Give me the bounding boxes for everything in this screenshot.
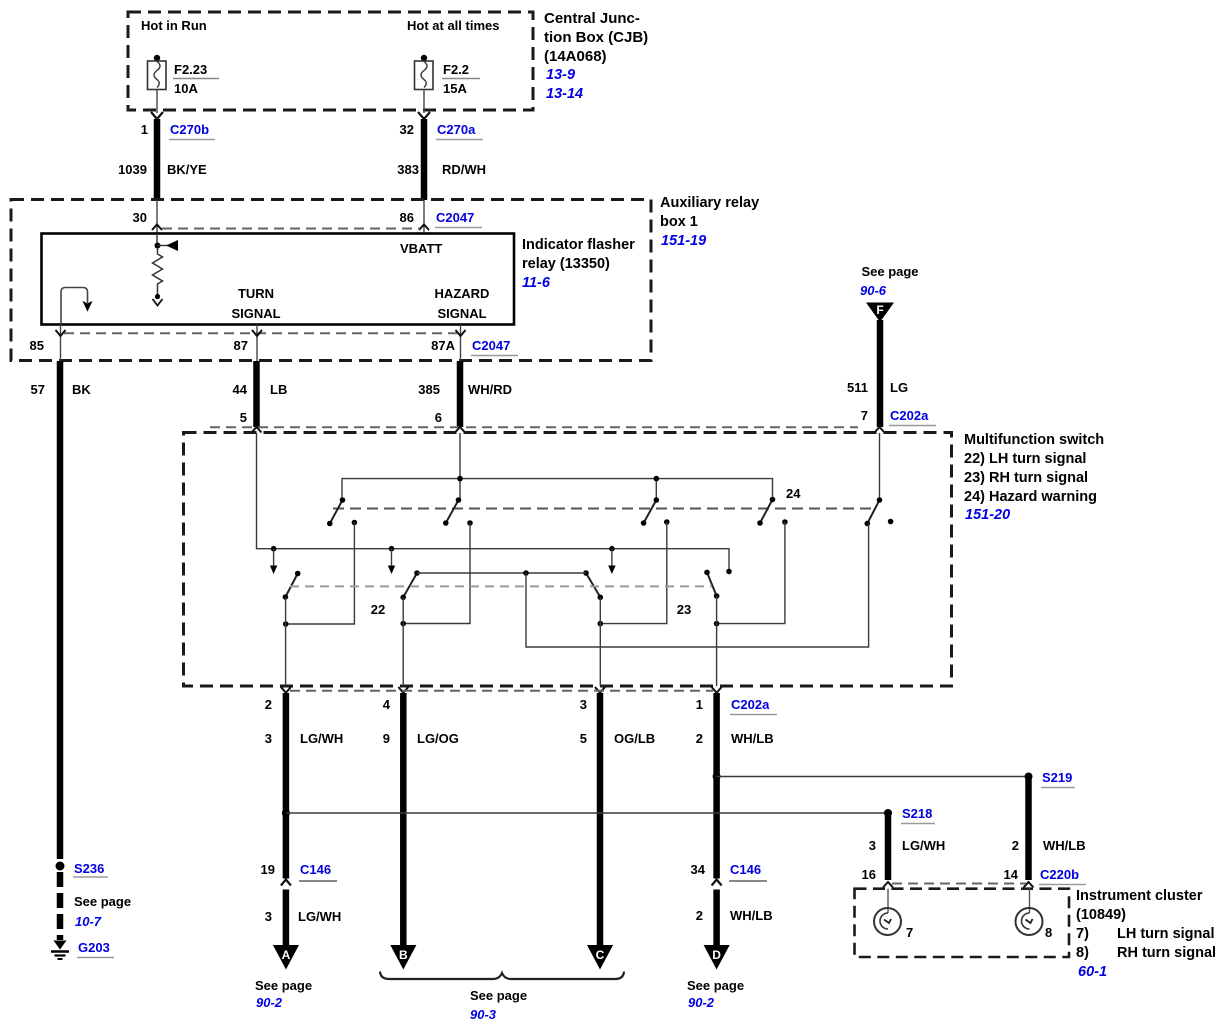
svg-text:A: A	[282, 948, 291, 962]
connector C2047 bottom bar	[64, 332, 457, 334]
connector C2047 top bar	[162, 228, 420, 230]
svg-text:OG/LB: OG/LB	[614, 731, 655, 746]
wire hazard feed line 24	[342, 479, 773, 500]
svg-text:2: 2	[265, 697, 272, 712]
wire output A thick lower	[283, 890, 290, 946]
off-page arrow B	[390, 945, 416, 970]
svg-text:(10849): (10849)	[1076, 907, 1126, 923]
svg-text:23) RH turn signal: 23) RH turn signal	[964, 470, 1088, 486]
svg-text:C146: C146	[730, 862, 761, 877]
svg-text:LG/WH: LG/WH	[902, 838, 945, 853]
svg-text:87: 87	[234, 338, 248, 353]
wire blade2 contact to output B link	[403, 523, 470, 624]
wire output A thick upper	[283, 693, 290, 879]
wire splice run D to S219	[717, 776, 1029, 778]
svg-text:90-6: 90-6	[860, 283, 887, 298]
switch 24 blade 5 open contact node	[888, 519, 894, 525]
svg-text:Indicator flasher: Indicator flasher	[522, 237, 635, 253]
lamp 7 LH turn signal indicator	[874, 889, 913, 940]
svg-text:60-1: 60-1	[1078, 964, 1107, 980]
svg-text:LG/WH: LG/WH	[300, 731, 343, 746]
connector C270b	[169, 122, 215, 140]
wire fuse F2.2 output (thin)	[423, 90, 425, 114]
svg-text:S218: S218	[902, 806, 932, 821]
relay contact arm (left arrowhead)	[158, 240, 179, 251]
svg-text:11-6: 11-6	[522, 275, 551, 291]
node stub blade3 on feed line	[654, 476, 660, 482]
ground G203 label	[77, 940, 114, 958]
connector C202a bottom	[730, 697, 777, 715]
relay coil resistor zigzag	[153, 249, 163, 296]
svg-text:15A: 15A	[443, 81, 467, 96]
Indicator flasher relay solid box	[42, 234, 515, 325]
node hazard common on tie line	[523, 570, 529, 576]
node on output D	[714, 621, 720, 627]
svg-text:F2.23: F2.23	[174, 62, 207, 77]
wire 9 LG/OG label (B)	[383, 731, 459, 746]
switch 22 blade 1	[283, 571, 301, 600]
svg-text:90-2: 90-2	[688, 995, 715, 1010]
svg-text:LB: LB	[270, 382, 287, 397]
svg-text:3: 3	[265, 731, 272, 746]
svg-text:90-3: 90-3	[470, 1007, 497, 1022]
svg-text:See page: See page	[255, 978, 312, 993]
fuse F2.23 10A	[148, 55, 220, 96]
svg-text:44: 44	[233, 382, 248, 397]
CJB title text	[544, 10, 648, 102]
off-page connector F (see page 90-6)	[860, 264, 919, 322]
svg-text:85: 85	[30, 338, 44, 353]
brace under B and C	[380, 972, 624, 980]
linkage dashed row 24	[333, 508, 872, 510]
svg-text:511: 511	[847, 380, 868, 395]
connector arrow out of CJB right	[418, 112, 430, 119]
relay coil lower node	[155, 294, 160, 299]
feed arrow contact 23L	[608, 546, 615, 574]
svg-text:23: 23	[677, 602, 691, 617]
connector C146 chevron on D	[712, 880, 722, 886]
wire output D thick lower	[713, 890, 720, 946]
relay title text	[522, 237, 635, 291]
connector C2047 bottom	[471, 338, 518, 356]
svg-text:7: 7	[861, 408, 868, 423]
label 57 BK	[31, 382, 92, 397]
svg-text:3: 3	[869, 838, 876, 853]
switch 23 blade 2	[704, 570, 719, 599]
wire blade3 contact to output C link	[600, 522, 667, 624]
output D exit chevron	[712, 687, 722, 693]
wire blade4 contact to output D link	[717, 522, 785, 624]
relay output hook to pin 85	[61, 288, 92, 325]
svg-text:13-9: 13-9	[546, 67, 575, 83]
svg-text:86: 86	[400, 210, 414, 225]
relay coil ground arrow	[153, 299, 163, 306]
wire output D thick upper	[713, 693, 720, 879]
wire output C inside box	[599, 597, 601, 686]
pin 86 connector chevron	[419, 225, 429, 231]
svg-text:30: 30	[133, 210, 147, 225]
svg-text:Hot at all times: Hot at all times	[407, 18, 499, 33]
svg-text:BK/YE: BK/YE	[167, 162, 207, 177]
wire 1039 BK/YE (thick)	[154, 119, 161, 200]
wire fuse F2.23 output (thin)	[156, 90, 158, 114]
svg-text:G203: G203	[78, 940, 110, 955]
svg-text:2: 2	[696, 908, 703, 923]
connector C202a top	[889, 408, 936, 426]
svg-text:1: 1	[696, 697, 703, 712]
pin 7 entry chevron	[875, 427, 885, 433]
svg-text:24) Hazard warning: 24) Hazard warning	[964, 489, 1097, 505]
svg-text:5: 5	[240, 410, 247, 425]
switch 24 blade 3 contact node	[664, 519, 670, 525]
connector C220b bar	[892, 883, 1026, 885]
svg-text:C220b: C220b	[1040, 867, 1079, 882]
wire 511 LG (thick)	[877, 320, 884, 427]
svg-text:34: 34	[691, 862, 706, 877]
svg-text:90-2: 90-2	[256, 995, 283, 1010]
wire 383 RD/WH (thick)	[421, 119, 428, 200]
svg-text:151-19: 151-19	[661, 233, 706, 249]
svg-text:RH turn signal: RH turn signal	[1117, 945, 1216, 961]
svg-text:151-20: 151-20	[965, 507, 1010, 523]
lamp 8 RH turn signal indicator	[1016, 889, 1053, 940]
Auxiliary relay box 1 dashed enclosure	[11, 200, 651, 361]
wire splice run A to S218	[286, 812, 888, 814]
cluster entry chevron left	[883, 882, 893, 888]
splice S218	[884, 806, 935, 824]
svg-text:B: B	[399, 948, 408, 962]
wire S219 to cluster (thick)	[1025, 777, 1032, 881]
pin 6 entry chevron	[455, 427, 465, 433]
svg-text:LG: LG	[890, 380, 908, 395]
svg-text:10A: 10A	[174, 81, 198, 96]
svg-text:9: 9	[383, 731, 390, 746]
svg-text:1039: 1039	[118, 162, 147, 177]
svg-text:See page: See page	[687, 978, 744, 993]
connector arrow out of CJB left	[151, 112, 163, 119]
svg-text:385: 385	[418, 382, 440, 397]
splice S236	[56, 861, 109, 877]
svg-text:BK: BK	[72, 382, 91, 397]
wire output C thick	[597, 693, 604, 945]
off-page arrow C	[587, 945, 613, 970]
node junction at relay input	[155, 243, 161, 249]
wire 3 LG/WH label (A)	[265, 731, 344, 746]
connector C146 label (A)	[299, 862, 337, 881]
label 511 LG	[847, 380, 908, 395]
wire 57 BK (thick) upper part	[57, 361, 64, 859]
label 1039 BK/YE	[118, 162, 207, 177]
ground G203 symbol	[51, 941, 69, 960]
wire output B inside box	[402, 597, 404, 686]
pin 30 wire into relay	[156, 200, 158, 234]
label TURN SIGNAL	[231, 286, 280, 321]
wire 385 WH/RD (thick)	[457, 361, 464, 427]
svg-text:C202a: C202a	[731, 697, 770, 712]
switch 24 blade 5 (hazard pickup)	[865, 497, 883, 526]
svg-text:2: 2	[696, 731, 703, 746]
svg-text:box 1: box 1	[660, 214, 698, 230]
see page 90-3 (brace)	[470, 988, 527, 1022]
pin 87A exit chevron	[456, 330, 466, 336]
Instrument cluster title text	[1076, 888, 1216, 980]
wire output D inside box	[716, 596, 718, 686]
pin 86 wire into relay	[423, 200, 425, 234]
svg-text:F: F	[876, 303, 883, 317]
wire 2 WH/LB label (D)	[696, 731, 774, 746]
wire pin6 feed vertical	[459, 433, 461, 500]
svg-text:VBATT: VBATT	[400, 241, 442, 256]
connector C146 label (D)	[729, 862, 767, 881]
wire hazard common to blade5 pivot	[526, 524, 869, 648]
svg-text:57: 57	[31, 382, 45, 397]
svg-text:C270b: C270b	[170, 122, 209, 137]
svg-text:22: 22	[371, 602, 385, 617]
connector C270a	[436, 122, 483, 140]
svg-text:SIGNAL: SIGNAL	[437, 306, 486, 321]
pin 85 wire out of relay	[60, 325, 62, 362]
connector C202a bottom bar	[290, 690, 713, 692]
svg-text:relay (13350): relay (13350)	[522, 256, 610, 272]
cluster entry chevron right	[1024, 882, 1034, 888]
svg-text:22) LH turn signal: 22) LH turn signal	[964, 451, 1086, 467]
output A exit chevron	[281, 687, 291, 693]
svg-text:1: 1	[141, 122, 148, 137]
node pin6 on feed line	[457, 476, 463, 482]
pin 5 entry chevron	[252, 427, 262, 433]
Multifunction switch dashed enclosure	[184, 433, 952, 687]
svg-text:LH turn signal: LH turn signal	[1117, 926, 1214, 942]
pin 87 exit chevron	[252, 330, 262, 336]
output B exit chevron	[398, 687, 408, 693]
off-page arrow D	[704, 945, 730, 970]
connector C146 chevron on A	[281, 880, 291, 886]
wire tie line 22-23	[417, 572, 586, 574]
wire 44 LB (thick)	[253, 361, 260, 427]
svg-text:Hot in Run: Hot in Run	[141, 18, 207, 33]
pin 87A wire out of relay	[460, 325, 462, 362]
switch 24 blade 1 contact node	[352, 520, 358, 526]
pin 87 wire out of relay	[256, 325, 258, 362]
wire 3 LG/WH lower label (A)	[265, 909, 342, 924]
svg-text:5: 5	[580, 731, 587, 746]
svg-text:8: 8	[1045, 925, 1052, 940]
label HAZARD SIGNAL	[435, 286, 490, 321]
feed arrow contact 22R	[388, 546, 395, 574]
svg-text:383: 383	[397, 162, 419, 177]
see page 90-2 (D)	[687, 978, 744, 1010]
svg-text:TURN: TURN	[238, 286, 274, 301]
wire pin7 feed vertical	[879, 433, 881, 500]
connector C2047 top	[435, 210, 482, 228]
svg-text:24: 24	[786, 486, 801, 501]
svg-text:C146: C146	[300, 862, 331, 877]
Multifunction switch title text	[964, 432, 1104, 523]
switch 22 blade 2	[400, 570, 419, 600]
svg-text:D: D	[712, 948, 721, 962]
label 385 WH/RD	[418, 382, 512, 397]
switch 24 blade 4 contact node	[782, 519, 788, 525]
svg-text:tion Box (CJB): tion Box (CJB)	[544, 29, 648, 46]
wire output A inside box	[285, 597, 287, 686]
node on output C	[598, 621, 604, 627]
output C exit chevron	[595, 687, 605, 693]
svg-text:C202a: C202a	[890, 408, 929, 423]
svg-text:WH/LB: WH/LB	[1043, 838, 1086, 853]
svg-text:32: 32	[400, 122, 414, 137]
node end stub row2 feed	[726, 569, 732, 575]
see page 10-7	[74, 894, 131, 929]
pin 85 exit chevron	[56, 330, 66, 336]
svg-text:WH/LB: WH/LB	[730, 908, 773, 923]
svg-text:13-14: 13-14	[546, 86, 583, 102]
wire 2 WH/LB lower label (D)	[696, 908, 773, 923]
svg-text:Multifunction switch: Multifunction switch	[964, 432, 1104, 448]
wire blade1 contact to output A link	[286, 523, 355, 625]
svg-text:19: 19	[261, 862, 275, 877]
wire pin5 feed (vertical + row2 feed line)	[257, 433, 730, 569]
svg-text:See page: See page	[470, 988, 527, 1003]
wire stub to blade3	[655, 479, 657, 500]
Central Junction Box dashed enclosure	[128, 12, 533, 110]
svg-text:C270a: C270a	[437, 122, 476, 137]
switch 23 blade 1	[583, 570, 603, 600]
svg-text:10-7: 10-7	[75, 914, 102, 929]
wire S218 to cluster (thick)	[885, 813, 892, 880]
svg-text:4: 4	[383, 697, 391, 712]
svg-text:C: C	[596, 948, 605, 962]
wire 5 OG/LB label (C)	[580, 731, 655, 746]
pin 30 connector chevron	[152, 225, 162, 231]
switch 24 blade 1	[327, 497, 345, 526]
svg-text:LG/OG: LG/OG	[417, 731, 459, 746]
svg-text:S236: S236	[74, 861, 104, 876]
switch 24 blade 3	[641, 497, 659, 526]
connector C202a top bar	[210, 426, 858, 428]
splice S219	[1025, 770, 1076, 788]
svg-text:LG/WH: LG/WH	[298, 909, 341, 924]
wire S236 to G203 (thick dashed)	[57, 872, 64, 940]
switch 24 blade 4	[757, 497, 775, 526]
label 383 RD/WH	[397, 162, 486, 177]
svg-text:Instrument cluster: Instrument cluster	[1076, 888, 1203, 904]
svg-text:(14A068): (14A068)	[544, 48, 607, 65]
svg-text:7): 7)	[1076, 926, 1089, 942]
connector C220b	[1039, 867, 1086, 885]
svg-text:C2047: C2047	[472, 338, 510, 353]
switch 24 blade 2 contact node	[467, 520, 473, 526]
svg-text:HAZARD: HAZARD	[435, 286, 490, 301]
svg-text:SIGNAL: SIGNAL	[231, 306, 280, 321]
svg-text:S219: S219	[1042, 770, 1072, 785]
svg-text:F2.2: F2.2	[443, 62, 469, 77]
node on output B	[400, 621, 406, 627]
off-page arrow A	[273, 945, 299, 970]
Auxiliary relay box title	[660, 195, 759, 249]
linkage dashed row 22/23	[290, 585, 712, 587]
svg-text:3: 3	[265, 909, 272, 924]
svg-text:6: 6	[435, 410, 442, 425]
fuse F2.2 15A	[415, 55, 481, 96]
label 44 LB	[233, 382, 288, 397]
svg-text:Central Junc-: Central Junc-	[544, 10, 640, 27]
wire output B thick	[400, 693, 407, 945]
svg-text:C2047: C2047	[436, 210, 474, 225]
svg-text:WH/RD: WH/RD	[468, 382, 512, 397]
svg-text:See page: See page	[861, 264, 918, 279]
relay internal feed from pin 30	[156, 234, 158, 246]
svg-text:7: 7	[906, 925, 913, 940]
svg-text:14: 14	[1004, 867, 1019, 882]
svg-text:WH/LB: WH/LB	[731, 731, 774, 746]
svg-text:8): 8)	[1076, 945, 1089, 961]
label 3 LG/WH (S218)	[869, 838, 946, 853]
svg-text:Auxiliary relay: Auxiliary relay	[660, 195, 759, 211]
feed arrow contact 22L	[270, 546, 277, 574]
svg-text:87A: 87A	[431, 338, 455, 353]
node splice takeoff on A	[282, 809, 290, 817]
node on output A	[283, 621, 289, 627]
switch 24 blade 2	[443, 497, 461, 526]
Instrument cluster dashed enclosure	[855, 889, 1070, 957]
node splice takeoff on D	[713, 773, 721, 781]
see page 90-2 (A)	[255, 978, 312, 1010]
svg-text:16: 16	[862, 867, 876, 882]
label 2 WH/LB (S219)	[1012, 838, 1086, 853]
svg-text:2: 2	[1012, 838, 1019, 853]
svg-text:3: 3	[580, 697, 587, 712]
svg-text:See page: See page	[74, 894, 131, 909]
svg-text:RD/WH: RD/WH	[442, 162, 486, 177]
